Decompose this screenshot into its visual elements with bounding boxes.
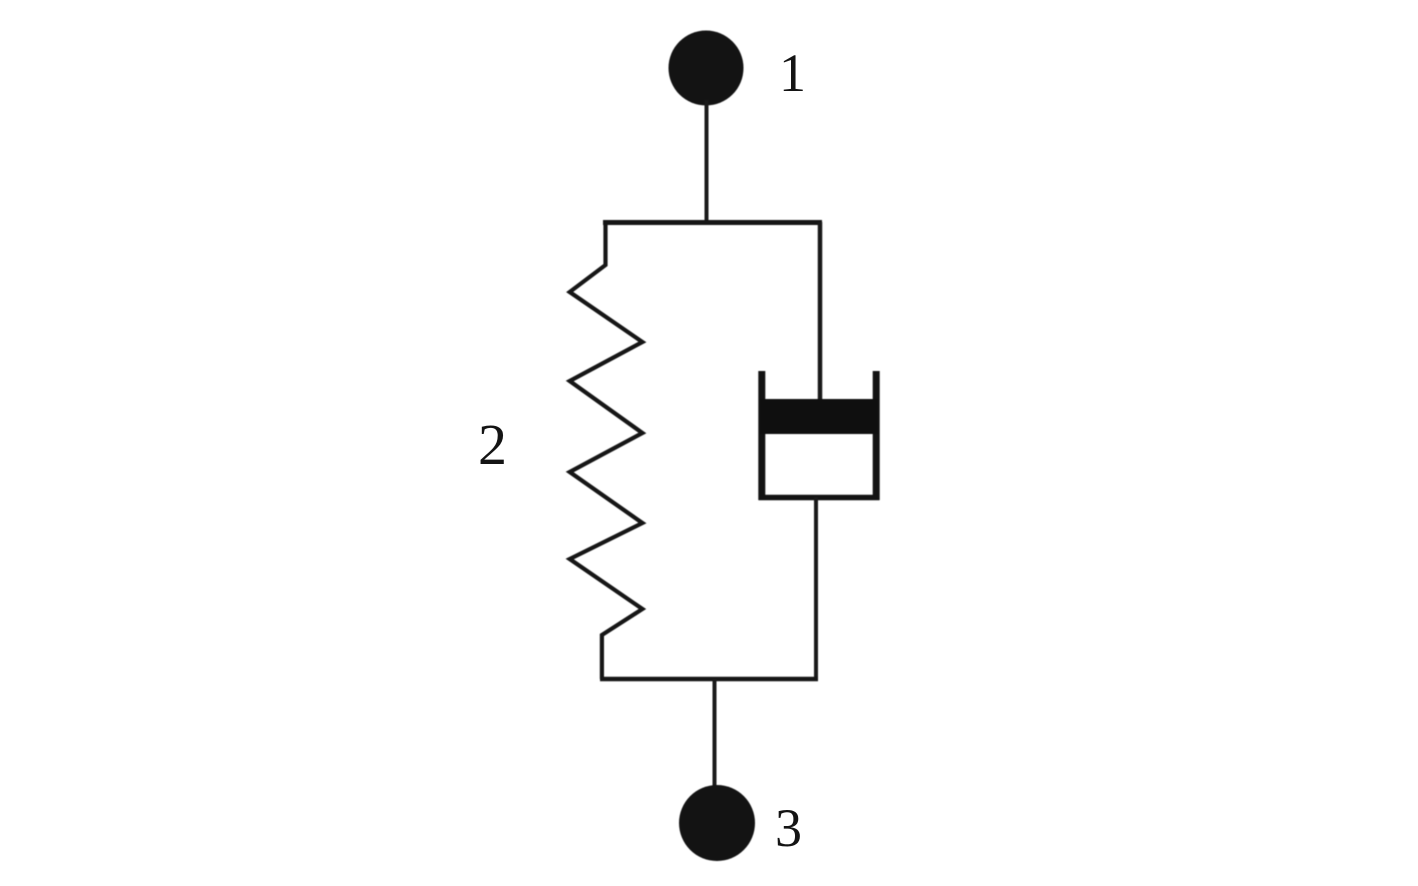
label 1 [779,46,806,100]
wire: top horizontal bar [603,220,822,225]
wire: node 1 to top bar [705,100,709,222]
wire: damper to bottom bar [814,497,818,679]
wire: bottom bar to node 3 [713,679,717,790]
damper cylinder bottom [759,495,880,501]
damper cylinder right wall [873,371,880,500]
damper piston rod (top lead) [818,222,823,402]
damper piston (filled block) [760,399,878,434]
damper cylinder left wall [758,371,765,500]
label 2 [478,416,507,474]
node 3 (bottom terminal) [679,785,755,861]
label 3 [775,801,802,855]
spring 2 (zigzag with leads) [570,222,643,679]
node 1 (top terminal) [669,31,744,106]
wire: bottom horizontal bar [600,677,818,682]
